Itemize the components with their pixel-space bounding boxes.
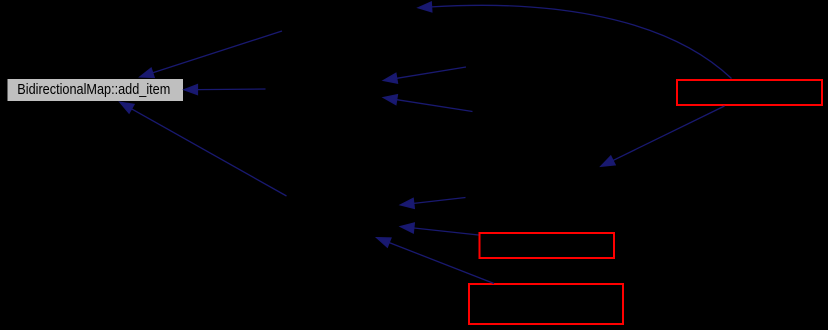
svg-text:BidirectionalMap::add_item: BidirectionalMap::add_item [17,81,170,98]
node red box 2 (middle) [480,233,615,258]
edge E10: red box 3 to lower hidden node (lowest arrow) [376,238,494,284]
node add_item (root, grey box) [7,79,184,102]
edge E8: hidden node to lower hidden node (upper arrow) [400,198,466,209]
edge E5: hidden node to hidden middle node (lower) [383,95,473,112]
node red box 1 (top right) [677,80,822,105]
edge E4: hidden node to hidden middle node (upper) [383,67,466,83]
edge E9: red box 2 to lower hidden node (middle arrow) [400,223,479,235]
edge E3: lower hidden node to add_item [120,102,287,196]
edge E1: top hidden node to add_item [140,31,283,78]
edge E6: red box 1 to top hidden node (long curve) [418,2,732,79]
node red box 3 (bottom, two lines) [469,284,623,324]
edge E2: middle hidden node to add_item (horizontal) [184,84,266,94]
edge E7: red box 1 to hidden node (down-left) [601,106,725,167]
